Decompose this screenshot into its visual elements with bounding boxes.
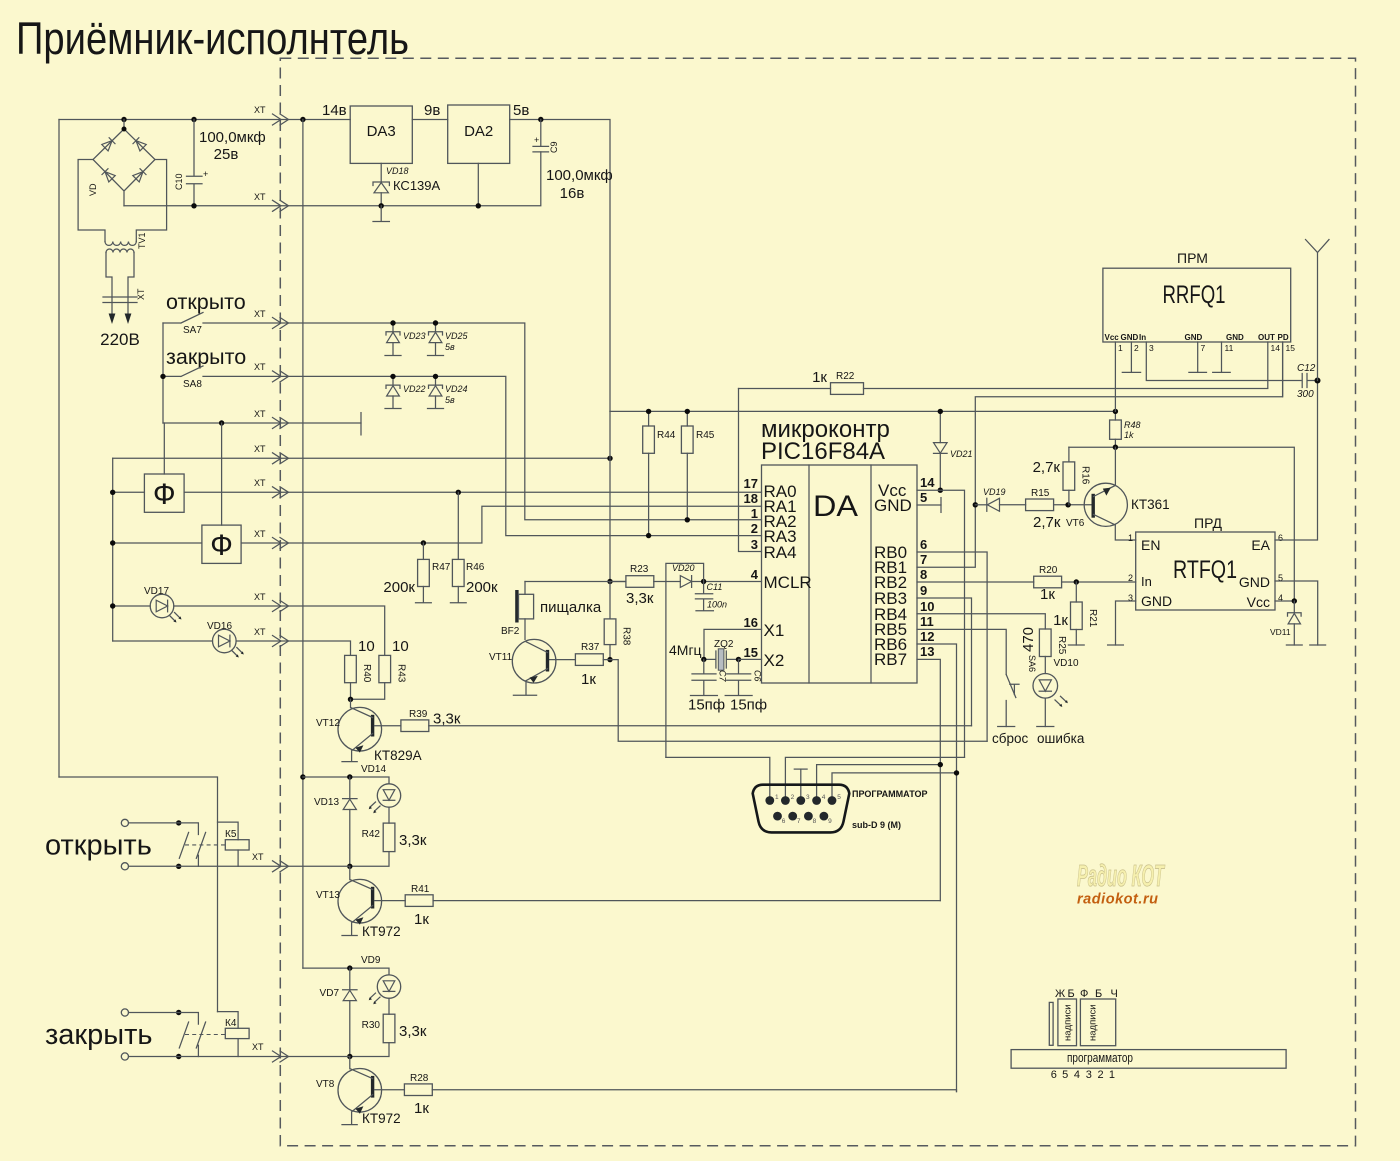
svg-text:25в: 25в: [214, 146, 239, 163]
zener VD25: [428, 323, 469, 356]
node dot R44 top: [646, 409, 651, 414]
svg-text:ПРД: ПРД: [1194, 515, 1222, 531]
wire RB1 riser to PD line: [917, 342, 1283, 567]
svg-text:VT6: VT6: [1066, 518, 1085, 529]
connector XT arrow row 323: [273, 318, 289, 329]
capacitor C11 100n: [695, 582, 727, 611]
node dot DA2 bottom: [476, 203, 481, 208]
svg-text:GND: GND: [1121, 333, 1139, 342]
svg-text:3: 3: [1149, 343, 1154, 353]
svg-text:GND: GND: [1141, 593, 1172, 609]
svg-text:R47: R47: [432, 562, 451, 573]
svg-text:2: 2: [1134, 343, 1139, 353]
wire +5v distribution row 458: [113, 457, 610, 459]
wire secondary leads: [106, 253, 134, 319]
node dot VD18 bottom: [379, 203, 384, 208]
node dot pin5 RB6: [954, 770, 959, 775]
svg-text:R37: R37: [581, 642, 600, 653]
relay coil K5: [218, 822, 250, 866]
svg-text:7: 7: [920, 552, 927, 567]
svg-text:C7: C7: [718, 670, 728, 682]
svg-text:C10: C10: [174, 173, 184, 190]
svg-text:300: 300: [1297, 389, 1314, 400]
svg-text:2,7к: 2,7к: [1033, 514, 1061, 531]
resistor R23 3.3k: [610, 564, 654, 607]
svg-text:R28: R28: [410, 1073, 429, 1084]
buzzer BF2: [501, 582, 602, 640]
svg-text:GND: GND: [1239, 574, 1270, 590]
diode VD19: [975, 487, 1025, 511]
wire R39 to RB3 drop: [429, 725, 972, 727]
svg-text:VD21: VD21: [950, 449, 973, 459]
wire RB0 to row741: [917, 552, 987, 741]
led VD10 error: [1033, 674, 1068, 727]
svg-text:R45: R45: [696, 430, 715, 441]
transmitter RTFQ1 box: [1136, 532, 1275, 610]
svg-text:R15: R15: [1031, 488, 1050, 499]
svg-text:Ф: Ф: [210, 529, 233, 562]
svg-text:5: 5: [837, 794, 841, 801]
terminator bar pin11: [1213, 371, 1231, 373]
svg-text:DA: DA: [813, 490, 858, 523]
node dot F2 row left: [110, 540, 115, 545]
svg-text:100,0мкф: 100,0мкф: [199, 129, 266, 146]
connector XT arrow row 543: [273, 538, 289, 549]
wire GND3 to ground: [1116, 601, 1136, 645]
transistor VT12 KT829A: [316, 699, 422, 763]
svg-text:470: 470: [1020, 627, 1037, 652]
svg-text:1к: 1к: [414, 1100, 429, 1117]
diode bridge VD: [88, 120, 155, 206]
node dot R44 bottom RA3: [646, 533, 651, 538]
node dot pin4 RB7: [938, 762, 943, 767]
mechanical link dashed: [185, 844, 225, 846]
node dot led chain feed 777: [300, 774, 305, 779]
resistor R43 10: [351, 638, 409, 699]
wire F1 riser: [163, 423, 165, 474]
node dot R48 top: [1113, 409, 1118, 414]
svg-text:PD: PD: [1278, 333, 1289, 342]
svg-text:XT: XT: [254, 627, 266, 637]
wire MCLR row start: [525, 581, 626, 583]
svg-text:TV1: TV1: [137, 232, 147, 249]
svg-text:GND: GND: [874, 496, 912, 515]
terminator bar GND3: [1108, 644, 1124, 646]
resistor R30 3.3k: [350, 998, 427, 1056]
wire bridge enclosure to transformer: [78, 160, 167, 242]
svg-text:R41: R41: [411, 884, 430, 895]
svg-text:КС139А: КС139А: [393, 178, 441, 193]
svg-text:RB7: RB7: [874, 650, 907, 669]
svg-text:3,3к: 3,3к: [399, 1023, 427, 1040]
resistor R25 470: [1020, 627, 1079, 674]
mechanical link dashed K4: [185, 1034, 225, 1036]
svg-text:VD14: VD14: [361, 764, 386, 775]
wire F2 riser: [221, 423, 223, 525]
svg-text:In: In: [1139, 333, 1146, 342]
svg-text:4: 4: [822, 794, 826, 801]
wire RRFQ1 pin1 Vcc down to +5 rail: [1114, 342, 1116, 411]
svg-text:закрыто: закрыто: [166, 345, 246, 369]
svg-text:14: 14: [920, 475, 935, 490]
svg-text:1k: 1k: [1124, 430, 1134, 440]
svg-text:XT: XT: [254, 592, 266, 602]
svg-text:VD11: VD11: [1270, 627, 1291, 637]
svg-text:пищалка: пищалка: [540, 599, 602, 616]
svg-text:сброс: сброс: [992, 731, 1028, 746]
wire F1 row to RA0: [113, 491, 762, 493]
wire RB7 down to R41 row: [917, 659, 940, 900]
svg-text:VT8: VT8: [316, 1079, 335, 1090]
svg-text:открыто: открыто: [166, 290, 246, 314]
svg-text:надписи: надписи: [1063, 1004, 1074, 1041]
svg-text:15пф: 15пф: [688, 697, 725, 714]
terminator bar error led: [1037, 726, 1054, 728]
svg-text:2: 2: [791, 794, 795, 801]
svg-text:1: 1: [751, 506, 758, 521]
svg-text:radiokot.ru: radiokot.ru: [1077, 892, 1158, 908]
capacitor C10: [174, 120, 208, 206]
resistor R48 1k: [1110, 411, 1141, 447]
svg-text:КТ829А: КТ829А: [374, 748, 422, 763]
svg-text:10: 10: [920, 599, 934, 614]
node dot SA8 common: [160, 374, 165, 379]
svg-text:1к: 1к: [1053, 612, 1068, 629]
zener VD23: [385, 323, 426, 356]
led VD14: [361, 764, 401, 813]
svg-text:7: 7: [1201, 343, 1206, 353]
node dot VD19 tap: [973, 502, 978, 507]
transformer TV1: [105, 232, 147, 252]
node dot R46 top: [456, 490, 461, 495]
wire GND5 right: [1275, 581, 1318, 645]
svg-text:EN: EN: [1141, 537, 1160, 553]
wire RB2 to R20: [917, 581, 1034, 583]
wire RB6 down to R28 row: [917, 644, 957, 1092]
relay coil K4: [218, 1012, 250, 1057]
wire pin4 row 764: [817, 765, 941, 796]
svg-text:VD23: VD23: [403, 331, 426, 341]
svg-text:ПРОГРАММАТОР: ПРОГРАММАТОР: [852, 789, 928, 799]
svg-text:sub-D 9 (M): sub-D 9 (M): [852, 820, 901, 830]
svg-text:XT: XT: [254, 105, 266, 115]
transistor VT13 KT972: [316, 866, 401, 939]
svg-text:18: 18: [744, 491, 758, 506]
wire RB3 to row 725: [917, 598, 972, 726]
svg-text:XT: XT: [254, 529, 266, 539]
svg-text:X2: X2: [764, 651, 785, 670]
node dot close row top contact: [176, 1010, 181, 1015]
svg-text:1: 1: [1109, 1069, 1115, 1081]
svg-text:VD24: VD24: [445, 384, 468, 394]
svg-text:закрыть: закрыть: [45, 1019, 152, 1051]
svg-text:XT: XT: [254, 444, 266, 454]
node dot R37 R38 junction: [607, 657, 612, 662]
wire pin5 row 773: [832, 773, 957, 796]
svg-text:КТ972: КТ972: [362, 1111, 401, 1126]
svg-text:X1: X1: [764, 621, 785, 640]
terminator bar pin7: [1189, 371, 1207, 373]
resistor R22 1k: [739, 369, 864, 394]
node dot F1 row left: [110, 490, 115, 495]
wire row 757 right segment pin2 to Vcc feed: [785, 757, 964, 796]
svg-text:16в: 16в: [560, 185, 585, 202]
wire collector rail 447: [1069, 447, 1294, 601]
capacitor C12 300: [1297, 363, 1318, 400]
filter box F1: [144, 474, 184, 512]
svg-text:R38: R38: [621, 627, 632, 646]
mains arrows down: [109, 314, 132, 325]
IC DA PIC16F84A box: [762, 465, 918, 683]
svg-text:EA: EA: [1251, 537, 1270, 553]
svg-text:R46: R46: [466, 562, 485, 573]
wire pin2 gnd: [1130, 342, 1132, 372]
transistor VT8 KT972: [316, 1057, 401, 1127]
dashed boundary frame: [280, 58, 1355, 1145]
svg-text:2: 2: [751, 521, 758, 536]
wire pin14 OUT to R22: [864, 342, 1268, 389]
svg-text:16: 16: [744, 615, 758, 630]
thin strip: [1049, 1002, 1053, 1045]
resistor R47 200k: [383, 543, 450, 603]
svg-text:VD9: VD9: [361, 955, 381, 966]
svg-text:4: 4: [1074, 1069, 1080, 1081]
svg-text:BF2: BF2: [501, 626, 520, 637]
svg-text:2,7к: 2,7к: [1033, 459, 1061, 476]
connector XT arrow close row: [273, 1051, 289, 1062]
svg-text:5в: 5в: [513, 102, 529, 119]
svg-text:XT: XT: [254, 478, 266, 488]
svg-text:13: 13: [920, 644, 934, 659]
wire RA4 riser to R22: [739, 389, 762, 552]
svg-text:XT: XT: [252, 852, 264, 862]
crystal ZQ2: [669, 629, 762, 670]
wire VD17 row 606: [113, 606, 385, 655]
svg-text:VT12: VT12: [316, 718, 340, 729]
node dot bridge out top: [121, 117, 126, 122]
node dot open row left: [176, 864, 181, 869]
svg-text:5в: 5в: [445, 342, 455, 352]
svg-text:In: In: [1141, 574, 1152, 589]
svg-text:открыть: открыть: [45, 830, 152, 862]
svg-text:Б: Б: [1095, 988, 1102, 1000]
diode VD13: [314, 777, 357, 866]
svg-text:R48: R48: [1124, 420, 1141, 430]
svg-text:17: 17: [744, 476, 758, 491]
capacitor C6 15pf: [725, 659, 767, 713]
node dot open row top contact: [176, 820, 181, 825]
node dot VD7 top: [347, 965, 352, 970]
svg-text:15: 15: [744, 645, 758, 660]
resistor R38: [604, 582, 631, 660]
svg-text:8: 8: [813, 818, 817, 825]
svg-text:10: 10: [358, 638, 375, 655]
connector XT arrow row 641: [273, 636, 289, 647]
wire pin15 PD riser: [1282, 342, 1284, 397]
svg-text:R23: R23: [630, 564, 649, 575]
resistor R45: [681, 411, 714, 519]
svg-text:VT11: VT11: [489, 652, 513, 663]
svg-text:R42: R42: [362, 829, 381, 840]
logo Radio KOT: [1077, 858, 1166, 908]
svg-text:9: 9: [920, 583, 927, 598]
svg-text:1к: 1к: [581, 671, 596, 688]
DB9 connector sub-D 9 M: [753, 785, 850, 833]
svg-text:RRFQ1: RRFQ1: [1163, 281, 1226, 309]
resistor R44: [643, 411, 676, 535]
svg-text:9: 9: [828, 818, 832, 825]
node dot R45 bottom RA2: [685, 517, 690, 522]
svg-text:Ч: Ч: [1111, 988, 1118, 1000]
svg-text:R21: R21: [1087, 609, 1098, 628]
terminator bar GND5: [1310, 644, 1326, 646]
svg-text:VT13: VT13: [316, 890, 340, 901]
diode VD21: [934, 411, 973, 490]
node dot R23 left: [607, 579, 612, 584]
svg-text:VD18: VD18: [386, 166, 409, 176]
node dot crystal left: [701, 657, 706, 662]
connector XT arrow row 458: [273, 453, 289, 464]
wire R37 node drop to row 741: [610, 660, 987, 742]
programmer bar: [1011, 1050, 1286, 1069]
svg-text:R44: R44: [657, 430, 676, 441]
led VD17: [144, 586, 182, 623]
svg-text:VD: VD: [88, 183, 98, 196]
svg-text:200к: 200к: [383, 579, 415, 596]
wire programmer bypass loop: [666, 563, 704, 757]
svg-text:6: 6: [782, 818, 786, 825]
resistor R41 1k: [375, 884, 941, 928]
strip nadpisi 2: [1080, 999, 1115, 1046]
ground bar below VD18: [373, 206, 389, 222]
resistor R46 200k: [450, 492, 498, 603]
wire 0v lower rail: [124, 152, 541, 206]
svg-text:7: 7: [797, 818, 801, 825]
node dot crystal right: [736, 657, 741, 662]
svg-text:Ж: Ж: [1055, 988, 1065, 1000]
svg-text:6: 6: [920, 537, 927, 552]
node dot C10 top: [191, 117, 196, 122]
svg-text:RTFQ1: RTFQ1: [1173, 556, 1237, 584]
svg-text:3: 3: [751, 537, 758, 552]
diode VD7: [320, 968, 357, 1056]
svg-text:3,3к: 3,3к: [626, 590, 654, 607]
wire SA7-SA8 common: [162, 323, 164, 423]
node dot C9 top: [538, 117, 543, 122]
svg-text:Б: Б: [1068, 988, 1075, 1000]
wire led chain row 777: [303, 777, 389, 784]
connector XT mains double bar: [103, 297, 137, 303]
node dot R45 top: [685, 409, 690, 414]
wire row 757 left segment pin1: [666, 757, 770, 796]
svg-text:VD10: VD10: [1054, 658, 1079, 669]
node dot R48 bottom: [1113, 445, 1118, 450]
wire 14v vertical feed x=303: [302, 120, 304, 969]
svg-text:R22: R22: [836, 371, 855, 382]
svg-text:R43: R43: [396, 664, 407, 683]
node dot R47 top: [421, 540, 426, 545]
svg-text:+: +: [534, 135, 539, 145]
svg-text:XT: XT: [254, 362, 266, 372]
svg-text:VD13: VD13: [314, 797, 339, 808]
svg-text:5: 5: [920, 490, 927, 505]
svg-text:+: +: [203, 169, 208, 179]
zener VD18 KC139A: [373, 163, 441, 205]
svg-text:VD7: VD7: [320, 988, 340, 999]
terminator bar reset: [998, 726, 1015, 728]
svg-text:Радио КОТ: Радио КОТ: [1077, 858, 1166, 893]
svg-text:14в: 14в: [322, 102, 347, 119]
svg-text:DA2: DA2: [464, 123, 493, 140]
svg-text:Ф: Ф: [1080, 988, 1088, 1000]
svg-text:VD20: VD20: [672, 563, 695, 573]
svg-text:100n: 100n: [707, 600, 727, 610]
svg-text:Vcc: Vcc: [1247, 594, 1270, 610]
svg-text:5в: 5в: [445, 395, 455, 405]
svg-text:6: 6: [1051, 1069, 1057, 1081]
antenna: [1306, 240, 1330, 381]
wire Vcc pin14 to programmer feed: [917, 490, 965, 757]
node dot MCLR C11: [701, 579, 706, 584]
wire X2 row: [739, 658, 762, 660]
svg-text:10: 10: [392, 638, 409, 655]
connector XT arrow row 423: [273, 418, 289, 429]
svg-text:11: 11: [1225, 343, 1234, 353]
svg-text:Vcc: Vcc: [1105, 333, 1120, 342]
wire pin7 gnd: [1197, 342, 1199, 372]
wire GND pin5 stub: [917, 504, 941, 506]
svg-text:К5: К5: [225, 829, 237, 840]
svg-text:XT: XT: [136, 288, 146, 300]
svg-text:программатор: программатор: [1067, 1051, 1133, 1065]
svg-text:XT: XT: [254, 192, 266, 202]
wire left drop from 14v rail: [58, 120, 60, 778]
svg-text:RA4: RA4: [764, 543, 797, 562]
svg-text:SA8: SA8: [183, 379, 202, 390]
resistor R16 2.7k: [1033, 447, 1091, 505]
strip nadpisi 1: [1058, 999, 1077, 1046]
svg-text:15: 15: [1286, 343, 1296, 353]
svg-text:R20: R20: [1039, 565, 1058, 576]
wire RB4 to R25: [917, 614, 1045, 629]
receiver RRFQ1 box: [1103, 268, 1291, 342]
svg-text:R39: R39: [409, 709, 428, 720]
node dot VD21 bottom Vcc pin: [938, 488, 943, 493]
resistor R15 2.7k: [1026, 488, 1093, 531]
svg-text:ПРМ: ПРМ: [1177, 250, 1208, 266]
wire EA to antenna: [1275, 381, 1318, 541]
node dot +5v at x610: [607, 456, 612, 461]
node dot close row left: [176, 1054, 181, 1059]
filter box F2: [202, 525, 241, 563]
connector XT arrow row 492: [273, 487, 289, 498]
svg-text:C11: C11: [707, 582, 723, 592]
svg-text:C12: C12: [1297, 363, 1316, 374]
svg-text:9в: 9в: [424, 102, 440, 119]
terminator bar pin3: [794, 768, 807, 770]
svg-text:1к: 1к: [1040, 586, 1055, 603]
node dot 14v entry: [300, 117, 305, 122]
node dot R21 top: [1074, 579, 1079, 584]
svg-text:R16: R16: [1080, 466, 1091, 485]
svg-text:6: 6: [1278, 533, 1283, 543]
terminal circles open: [121, 819, 128, 826]
zener VD11: [1270, 601, 1302, 645]
wire pin11 gnd: [1221, 342, 1223, 372]
svg-text:4: 4: [751, 567, 759, 582]
terminator T bar GND5: [940, 498, 942, 513]
wire 14v top rail: [59, 119, 350, 121]
